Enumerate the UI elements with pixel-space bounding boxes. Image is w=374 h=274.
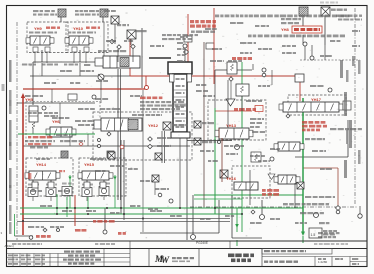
- svg-text:YH12: YH12: [148, 123, 159, 128]
- svg-text:YH6: YH6: [52, 119, 61, 124]
- svg-text:YH16: YH16: [226, 176, 237, 181]
- svg-text:YH9: YH9: [34, 26, 43, 31]
- svg-text:W: W: [161, 255, 170, 265]
- svg-text:PG240E: PG240E: [196, 241, 208, 245]
- svg-text:YH15: YH15: [84, 162, 95, 167]
- svg-text:YH10: YH10: [73, 26, 84, 31]
- svg-text:1:2280: 1:2280: [318, 260, 328, 264]
- svg-text:YH14: YH14: [36, 162, 47, 167]
- svg-text:YH8: YH8: [281, 27, 290, 32]
- svg-text:YH13: YH13: [226, 123, 237, 128]
- svg-text:1.5: 1.5: [311, 233, 316, 237]
- svg-text:YH17: YH17: [311, 97, 322, 102]
- svg-text:YH5: YH5: [25, 97, 34, 102]
